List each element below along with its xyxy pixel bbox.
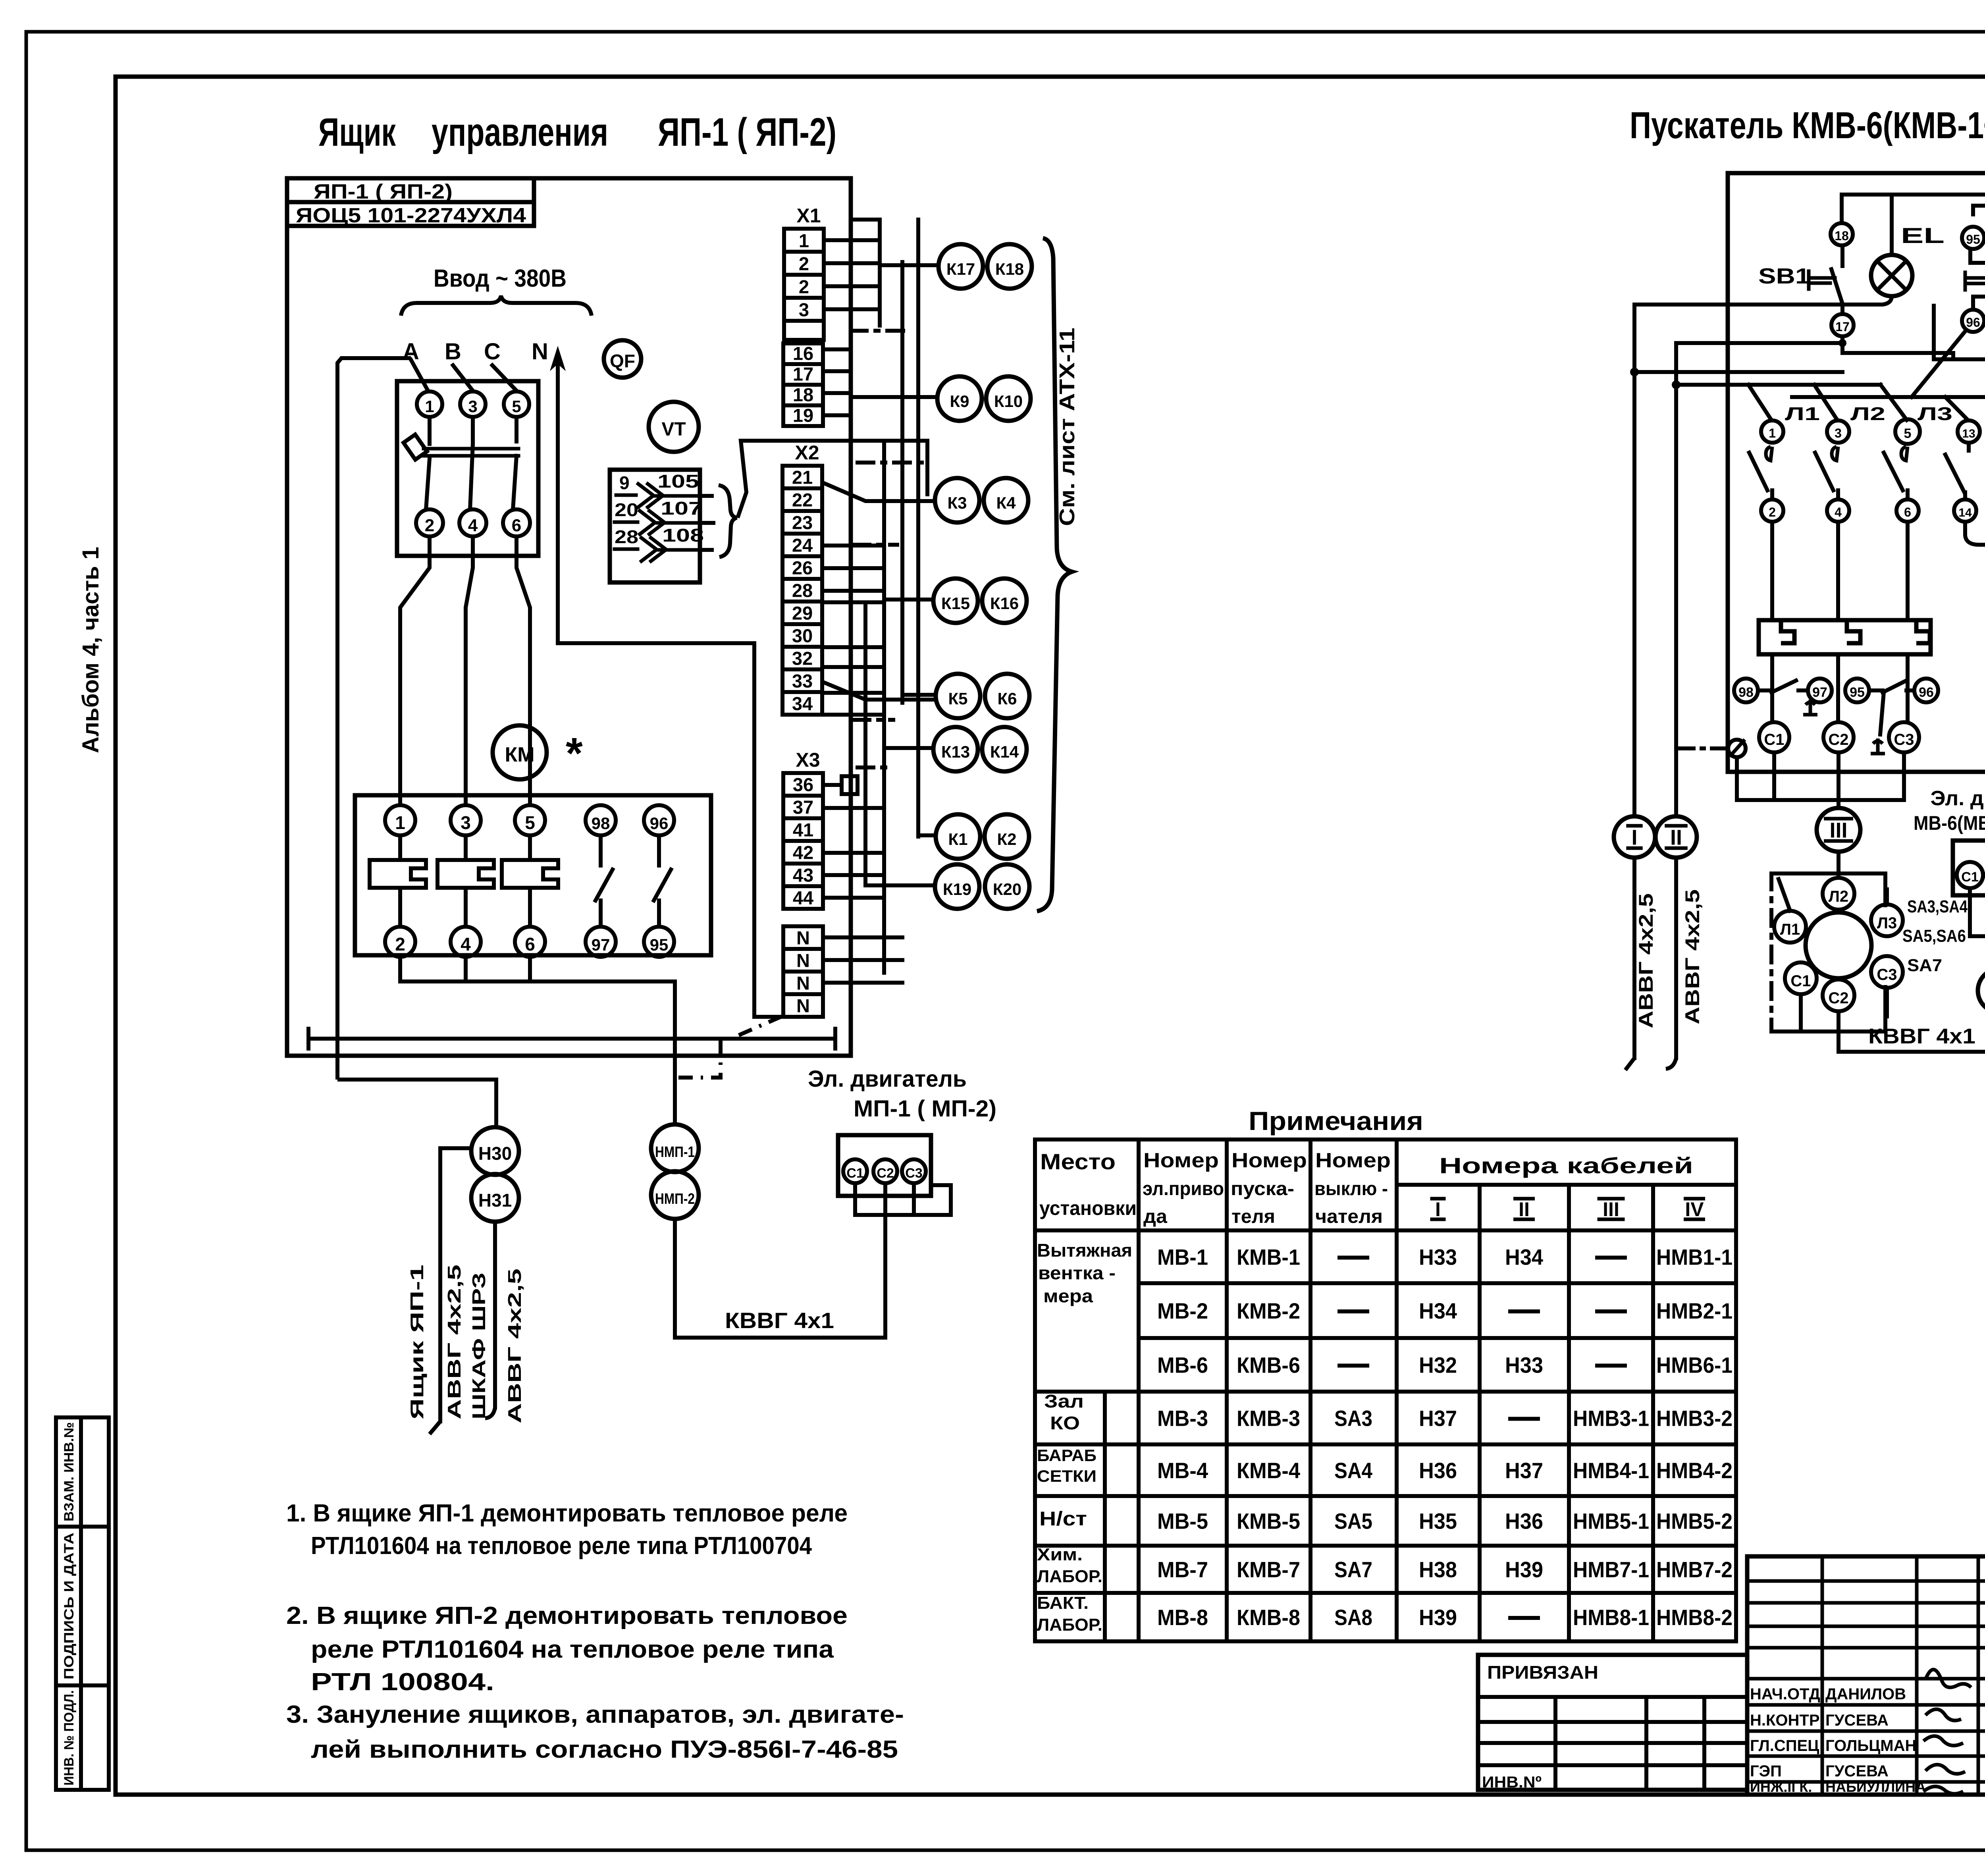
svg-text:НМВ1-1: НМВ1-1 <box>1656 1245 1733 1270</box>
terminal 96 <box>1962 310 1984 332</box>
cable circle IV <box>1978 969 1985 1012</box>
KM1 main contact pole 5 <box>1901 447 1908 461</box>
svg-text:КМВ-6: КМВ-6 <box>1237 1353 1300 1378</box>
svg-text:5: 5 <box>512 397 521 416</box>
svg-text:I: I <box>1435 1198 1441 1220</box>
terminal 14 <box>1954 499 1976 522</box>
terminal X1:1 <box>784 229 824 252</box>
motor MB terminal C3 <box>1871 956 1903 988</box>
svg-text:Н39: Н39 <box>1419 1605 1457 1630</box>
contactor terminal 97 <box>586 927 616 957</box>
wire to K5 <box>902 693 936 697</box>
svg-text:Л3: Л3 <box>1918 403 1952 424</box>
terminal X3:44 <box>783 886 823 909</box>
svg-text:26: 26 <box>792 557 813 578</box>
contactor main contact pole 5 <box>528 835 532 860</box>
svg-text:2: 2 <box>799 253 809 274</box>
terminal X3:41 <box>783 818 823 841</box>
terminal 95b <box>1845 679 1869 702</box>
svg-text:ЯП-1 ( ЯП-2): ЯП-1 ( ЯП-2) <box>314 180 453 203</box>
svg-text:43: 43 <box>793 865 813 886</box>
terminal :N <box>783 926 823 949</box>
svg-text:ЯП-1 ( ЯП-2): ЯП-1 ( ЯП-2) <box>658 110 836 154</box>
svg-text:К1: К1 <box>948 830 968 848</box>
svg-text:5: 5 <box>525 812 535 833</box>
svg-text:К14: К14 <box>990 742 1019 761</box>
terminal stubs X3 <box>823 783 842 787</box>
svg-text:3: 3 <box>461 812 471 833</box>
svg-text:18: 18 <box>1835 229 1849 243</box>
wire to K1 <box>918 833 936 837</box>
terminal 2 <box>1761 499 1783 522</box>
contactor terminal 6 <box>515 927 545 957</box>
terminal 96b <box>1914 679 1938 702</box>
svg-text:Н36: Н36 <box>1505 1509 1543 1534</box>
svg-text:N: N <box>796 950 810 971</box>
svg-text:23: 23 <box>792 512 813 533</box>
terminal X2:30 <box>782 624 822 647</box>
wire: breaker pole 6 down to contactor 5 <box>516 536 530 805</box>
terminal X2:23 <box>782 511 822 534</box>
svg-text:N: N <box>796 973 810 994</box>
svg-text:44: 44 <box>793 887 813 908</box>
svg-text:С3: С3 <box>1877 966 1897 983</box>
cable label ШКАФ ШРЗ <box>468 1273 489 1419</box>
wire to K15 <box>884 598 933 602</box>
svg-text:Н32: Н32 <box>1419 1353 1457 1378</box>
svg-text:выклю -: выклю - <box>1314 1178 1388 1199</box>
terminal stub X2:21 diagonal <box>822 482 935 501</box>
svg-text:X1: X1 <box>796 204 821 227</box>
bus wire vertical D <box>916 220 920 837</box>
cable label Ящик ЯП-1 <box>407 1265 427 1419</box>
svg-text:Н34: Н34 <box>1419 1298 1457 1323</box>
svg-text:МВ-6(МВ-1÷МВ-5,МВ-7,МВ-8 ): МВ-6(МВ-1÷МВ-5,МВ-7,МВ-8 ) <box>1914 812 1985 834</box>
svg-text:Место: Место <box>1040 1149 1116 1174</box>
svg-text:МВ-1: МВ-1 <box>1157 1245 1208 1270</box>
motor MB terminal Л3 <box>1871 904 1903 936</box>
KM1 main contact pole 3 <box>1832 447 1838 461</box>
bracket see sheet ATX-11 <box>1037 238 1072 911</box>
terminal C1 <box>1759 722 1789 752</box>
KM1 aux contact 13-14 <box>1967 443 1971 451</box>
motor MB terminal Л2 <box>1823 878 1854 910</box>
svg-text:1: 1 <box>425 397 434 416</box>
relay pair K13 K14 <box>933 727 978 771</box>
notes table grid <box>1035 1139 1736 1641</box>
svg-text:Номер: Номер <box>1315 1149 1391 1172</box>
svg-text:КМВ-1: КМВ-1 <box>1237 1245 1300 1270</box>
terminal X3:43 <box>783 864 823 886</box>
terminal X3:36 <box>783 773 823 796</box>
control wire 18 loop <box>1842 195 1985 419</box>
breaker pole terminal 5 <box>504 391 529 417</box>
svg-text:НМВ5-2: НМВ5-2 <box>1656 1509 1733 1534</box>
svg-text:30: 30 <box>792 625 813 646</box>
breaker pole terminal 2 <box>416 509 443 536</box>
svg-text:МВ-8: МВ-8 <box>1157 1605 1208 1630</box>
svg-text:IV: IV <box>1685 1198 1704 1220</box>
svg-text:вентка -: вентка - <box>1038 1263 1116 1283</box>
svg-text:КО: КО <box>1050 1413 1080 1433</box>
wire H30 to cable 1 <box>440 1146 471 1150</box>
terminal 1 <box>1761 420 1783 443</box>
svg-text:Эл. двигатель: Эл. двигатель <box>1931 787 1985 810</box>
wire bus y969 <box>1676 383 1881 387</box>
bus wire vertical main <box>849 178 853 1016</box>
svg-text:3. Зануление ящиков, аппаратов: 3. Зануление ящиков, аппаратов, эл. двиг… <box>286 1701 904 1728</box>
svg-text:Н33: Н33 <box>1505 1353 1543 1378</box>
svg-text:Н34: Н34 <box>1505 1245 1543 1270</box>
decoder box VT 9/20/28 <box>610 470 700 582</box>
signatures scribbles <box>1925 1670 1971 1687</box>
svg-text:НМВ5-1: НМВ5-1 <box>1573 1509 1649 1534</box>
svg-text:К13: К13 <box>941 742 970 761</box>
terminal X2:24 <box>782 534 822 556</box>
thermal contact 95-96 <box>1869 688 1883 692</box>
terminal 95 <box>1962 227 1984 249</box>
album label: Альбом 4, часть 1 <box>78 547 104 753</box>
terminal 6 <box>1896 499 1919 522</box>
bus wire vertical E <box>882 441 886 973</box>
svg-text:33: 33 <box>792 671 813 692</box>
svg-text:пуска-: пуска- <box>1231 1178 1294 1199</box>
svg-text:1: 1 <box>1769 426 1776 440</box>
motor МП wiring <box>853 1183 857 1215</box>
terminal 13 <box>1958 420 1980 443</box>
contactor main contact pole 1 <box>398 835 402 860</box>
relay pair K17 K18 <box>939 244 983 289</box>
svg-text:29: 29 <box>792 603 813 624</box>
motor MB rotor circle <box>1806 912 1871 978</box>
contactor terminal 1 <box>385 805 415 835</box>
svg-text:Альбом 4, часть 1: Альбом 4, часть 1 <box>78 547 104 753</box>
wire KVVG to IV <box>1839 1012 1985 1052</box>
motor MB terminal box <box>1953 841 1985 895</box>
svg-text:97: 97 <box>1812 685 1827 700</box>
terminal stubs X2 <box>822 544 884 548</box>
svg-text:Н/ст: Н/ст <box>1039 1508 1087 1530</box>
svg-text:Л3: Л3 <box>1877 914 1897 932</box>
notes table sub divider <box>1103 1392 1107 1641</box>
svg-text:6: 6 <box>512 516 521 535</box>
breaker pole terminal 1 <box>417 391 442 417</box>
svg-text:МВ-2: МВ-2 <box>1157 1298 1208 1323</box>
terminal 4 <box>1827 499 1849 522</box>
contactor terminal 96 <box>644 805 674 835</box>
svg-text:К20: К20 <box>993 880 1021 898</box>
svg-text:РТЛ 100804.: РТЛ 100804. <box>311 1668 494 1696</box>
svg-text:28: 28 <box>792 580 813 601</box>
svg-text:13: 13 <box>1962 427 1975 440</box>
svg-text:22: 22 <box>792 490 813 511</box>
svg-text:НМВ8-1: НМВ8-1 <box>1573 1605 1649 1630</box>
svg-text:лей выполнить согласно ПУЭ-856: лей выполнить согласно ПУЭ-856I-7-46-85 <box>311 1736 898 1763</box>
svg-text:К2: К2 <box>997 830 1017 848</box>
junction dots <box>1630 368 1639 376</box>
wire to K13 <box>884 746 933 750</box>
svg-text:МВ-4: МВ-4 <box>1157 1458 1208 1483</box>
svg-text:С2: С2 <box>877 1166 894 1181</box>
svg-text:С1: С1 <box>1961 870 1978 885</box>
terminal X2:33 <box>782 669 822 692</box>
contactor terminal 5 <box>515 805 545 835</box>
svg-text:ЯОЦ5 101-2274УХЛ4: ЯОЦ5 101-2274УХЛ4 <box>296 204 526 227</box>
svg-text:95: 95 <box>650 935 669 954</box>
note see sheet ATX-11 <box>1055 328 1079 526</box>
svg-text:19: 19 <box>793 405 813 426</box>
svg-text:КВВГ 4х1: КВВГ 4х1 <box>725 1308 834 1333</box>
svg-text:95: 95 <box>1850 685 1865 700</box>
svg-text:ГЛ.СПЕЦ: ГЛ.СПЕЦ <box>1750 1737 1819 1755</box>
svg-text:К10: К10 <box>994 392 1023 411</box>
svg-text:К15: К15 <box>941 594 970 613</box>
contactor terminal 2 <box>385 927 415 957</box>
cable label АВВГ 4х2,5 (1) <box>444 1265 464 1419</box>
wire bus 2-4-6 to НМП <box>464 957 468 981</box>
svg-text:96: 96 <box>1919 685 1934 700</box>
svg-text:Н37: Н37 <box>1505 1458 1543 1483</box>
svg-text:НМВ2-1: НМВ2-1 <box>1656 1298 1733 1323</box>
svg-text:Пускатель КМВ-6(КМВ-1÷КМВ-5, К: Пускатель КМВ-6(КМВ-1÷КМВ-5, КМВ-7, КМВ-… <box>1630 104 1985 147</box>
svg-text:С2: С2 <box>1828 731 1848 748</box>
svg-text:3: 3 <box>1835 426 1842 440</box>
svg-text:БАРАБ: БАРАБ <box>1037 1446 1097 1465</box>
svg-text:X2: X2 <box>795 442 819 464</box>
svg-text:1: 1 <box>799 230 809 251</box>
svg-text:Зал: Зал <box>1044 1391 1084 1411</box>
svg-text:К3: К3 <box>948 494 967 512</box>
svg-text:КМВ-7: КМВ-7 <box>1237 1557 1300 1582</box>
cable circle III <box>1817 808 1860 852</box>
svg-text:5: 5 <box>1904 426 1912 441</box>
relay pair K1 K2 <box>936 814 980 859</box>
svg-text:К5: К5 <box>948 689 968 708</box>
svg-text:Н30: Н30 <box>478 1143 512 1164</box>
brace decoder outputs <box>719 485 737 557</box>
wire K19 riser <box>863 602 867 885</box>
svg-text:АВВГ 4х2,5: АВВГ 4х2,5 <box>1635 893 1657 1028</box>
wire: phase C into breaker <box>492 365 516 391</box>
svg-text:Н38: Н38 <box>1419 1557 1457 1582</box>
svg-text:III: III <box>1603 1198 1619 1220</box>
svg-text:управления: управления <box>432 110 608 154</box>
motor MB terminal C1 <box>1785 962 1817 994</box>
svg-text:N: N <box>796 995 810 1016</box>
terminal C2 <box>1823 722 1854 752</box>
svg-text:реле РТЛ101604 на тепловое рел: реле РТЛ101604 на тепловое реле типа <box>311 1636 834 1663</box>
motor МП terminal C1 <box>843 1159 867 1183</box>
phase feed diagonals <box>1748 385 1771 420</box>
terminal X2:34 <box>782 692 822 715</box>
cable line II down <box>1674 343 1678 816</box>
PE dash-dot from cable II <box>1679 746 1727 750</box>
wire: breaker pole 2 down to contactor 1 <box>400 536 430 805</box>
terminal X1:3 <box>784 298 824 321</box>
terminal X2:29 <box>782 602 822 624</box>
svg-text:ИНВ. № ПОДЛ.: ИНВ. № ПОДЛ. <box>62 1690 77 1785</box>
svg-text:2: 2 <box>395 934 405 954</box>
svg-text:96: 96 <box>1966 315 1980 330</box>
svg-text:МВ-6: МВ-6 <box>1157 1353 1208 1378</box>
svg-text:ВЗАМ. ИНВ.№: ВЗАМ. ИНВ.№ <box>62 1422 77 1521</box>
aux contact 96-95 <box>657 835 661 866</box>
svg-text:9: 9 <box>619 472 630 493</box>
wire feed I horizontal <box>1634 303 1881 307</box>
svg-text:чателя: чателя <box>1315 1206 1383 1227</box>
contactor terminal 95 <box>644 927 674 957</box>
MB box wiring <box>1968 888 1972 936</box>
svg-text:X3: X3 <box>796 749 820 771</box>
wire: breaker pole 4 down to contactor 3 <box>466 536 473 805</box>
svg-text:Л1: Л1 <box>1785 403 1820 424</box>
cable label АВВГ 4х2,5 (2) <box>504 1269 525 1423</box>
left stamp cells <box>56 1417 109 1790</box>
svg-text:С3: С3 <box>905 1166 922 1181</box>
svg-text:АВВГ 4х2,5: АВВГ 4х2,5 <box>444 1265 464 1419</box>
svg-text:SA3,SA4: SA3,SA4 <box>1907 897 1968 916</box>
svg-text:98: 98 <box>592 814 610 833</box>
terminal 98 <box>1734 679 1758 702</box>
PE dash-dot link N to bus <box>734 1016 782 1037</box>
terminal stubs 16-19 <box>823 347 851 351</box>
terminal X2:22 <box>782 488 822 511</box>
svg-text:Ящик ЯП-1: Ящик ЯП-1 <box>407 1265 427 1419</box>
svg-text:105: 105 <box>657 471 699 492</box>
svg-text:Н39: Н39 <box>1505 1557 1543 1582</box>
svg-text:С1: С1 <box>846 1166 863 1181</box>
cable line I down <box>1632 305 1636 816</box>
svg-text:SA8: SA8 <box>1334 1605 1372 1630</box>
motor МП terminal C3 <box>902 1159 926 1183</box>
cable marker НМП-1 <box>651 1124 699 1172</box>
svg-text:установки: установки <box>1039 1197 1137 1219</box>
svg-text:С2: С2 <box>1828 989 1848 1007</box>
svg-text:КВВГ 4х1: КВВГ 4х1 <box>1868 1024 1975 1048</box>
dash-dot boundary marks <box>851 329 909 333</box>
svg-text:Л1: Л1 <box>1780 921 1800 938</box>
svg-text:EL: EL <box>1901 223 1945 248</box>
bus wire vertical C <box>900 262 904 703</box>
contactor terminal 98 <box>586 805 616 835</box>
MB box terminal C1 <box>1957 862 1983 888</box>
wire to K19 <box>865 883 935 887</box>
cable line 2 <box>493 1222 497 1407</box>
svg-text:17: 17 <box>793 364 813 385</box>
svg-text:В: В <box>445 339 461 364</box>
svg-text:ДАНИЛОВ: ДАНИЛОВ <box>1825 1685 1906 1703</box>
svg-text:6: 6 <box>1904 505 1911 519</box>
terminal 3 <box>1827 420 1849 443</box>
svg-text:42: 42 <box>793 842 813 863</box>
wire decoder to X2:21 <box>738 441 927 518</box>
svg-text:SA7: SA7 <box>1907 956 1942 975</box>
svg-text:Н36: Н36 <box>1419 1458 1457 1483</box>
breaker pole terminal 3 <box>460 391 486 417</box>
svg-text:20: 20 <box>615 499 638 520</box>
svg-text:ПРИВЯЗАН: ПРИВЯЗАН <box>1487 1662 1598 1683</box>
privyazan box <box>1478 1655 1747 1790</box>
svg-text:Н31: Н31 <box>478 1190 512 1211</box>
terminal :N <box>783 949 823 972</box>
svg-text:I: I <box>1631 825 1637 849</box>
cable line 1 <box>438 1148 442 1421</box>
bus wire vertical B <box>878 220 882 326</box>
terminal :N <box>783 994 823 1017</box>
cable marker НМП-2 <box>651 1171 699 1219</box>
svg-text:КМВ-5: КМВ-5 <box>1237 1509 1300 1534</box>
svg-text:К17: К17 <box>946 260 975 278</box>
svg-text:К18: К18 <box>995 260 1024 278</box>
svg-text:97: 97 <box>592 935 610 954</box>
cable circle I <box>1614 816 1655 858</box>
svg-text:ГОЛЬЦМАН: ГОЛЬЦМАН <box>1825 1737 1916 1755</box>
KM1 main contact pole 1 <box>1766 447 1772 461</box>
svg-text:Н33: Н33 <box>1419 1245 1457 1270</box>
svg-text:ЛАБОР.: ЛАБОР. <box>1037 1615 1102 1635</box>
svg-text:II: II <box>1519 1198 1530 1220</box>
wire phases down to thermal relay <box>1770 522 1774 620</box>
svg-text:КМВ-4: КМВ-4 <box>1237 1458 1300 1483</box>
svg-text:С1: С1 <box>1764 731 1784 748</box>
svg-text:36: 36 <box>793 774 813 795</box>
wire to H30 from box <box>337 1080 496 1127</box>
relay pair K5 K6 <box>936 674 980 718</box>
svg-text:SA5,SA6: SA5,SA6 <box>1902 926 1966 946</box>
wire heaters to C terminals <box>1770 654 1774 722</box>
svg-text:ГУСЕВА: ГУСЕВА <box>1825 1712 1889 1729</box>
svg-text:НАЧ.ОТД.: НАЧ.ОТД. <box>1750 1685 1825 1703</box>
wire bus y937 <box>1634 370 1842 374</box>
svg-text:1: 1 <box>395 812 405 833</box>
svg-text:VT: VT <box>661 419 686 440</box>
svg-text:Ящик: Ящик <box>318 110 396 154</box>
wire: phase A into breaker <box>411 360 428 391</box>
svg-text:Л2: Л2 <box>1829 888 1848 905</box>
svg-text:34: 34 <box>792 693 813 714</box>
svg-text:Номер: Номер <box>1143 1149 1219 1172</box>
svg-text:БАКТ.: БАКТ. <box>1037 1593 1089 1613</box>
svg-text:4: 4 <box>461 934 471 954</box>
svg-text:16: 16 <box>793 343 813 364</box>
svg-text:32: 32 <box>792 648 813 669</box>
relay pair K3 K4 <box>935 478 979 523</box>
svg-text:К6: К6 <box>998 689 1017 708</box>
terminal X2:21 <box>782 466 822 488</box>
notes table row lines <box>1139 1281 1736 1285</box>
svg-text:41: 41 <box>793 819 813 841</box>
svg-text:108: 108 <box>662 525 704 546</box>
cable label АВВГ 4х2,5 (I) <box>1635 893 1657 1028</box>
svg-text:18: 18 <box>793 384 813 405</box>
terminal :N <box>783 972 823 994</box>
svg-text:4: 4 <box>1835 505 1842 519</box>
svg-text:МП-1 ( МП-2): МП-1 ( МП-2) <box>854 1096 996 1122</box>
designator QF <box>604 340 641 378</box>
terminal 18 <box>1831 223 1853 245</box>
terminal :17 <box>783 364 823 385</box>
terminal X2:26 <box>782 556 822 579</box>
enclosure box ЯП-1 <box>287 178 851 1056</box>
contactor terminal 4 <box>451 927 481 957</box>
wire 96 diagonal to L3 node <box>1912 330 1966 397</box>
svg-text:Номера кабелей: Номера кабелей <box>1439 1153 1693 1178</box>
svg-text:Н35: Н35 <box>1419 1509 1457 1534</box>
wire decoder outputs <box>700 494 712 498</box>
contactor designator KM <box>493 725 547 779</box>
signature table <box>1747 1556 1985 1795</box>
svg-text:21: 21 <box>792 467 813 488</box>
